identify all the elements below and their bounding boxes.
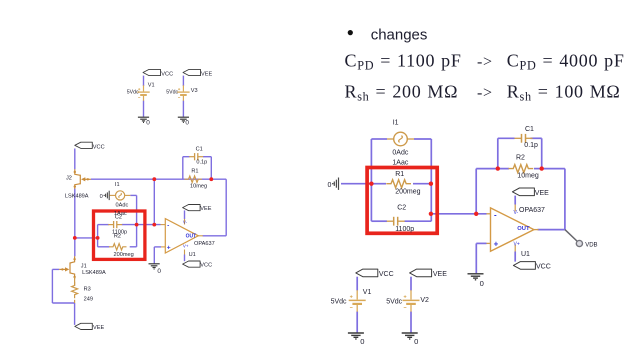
svg-text:Rsh = 200 MΩ: Rsh = 200 MΩ bbox=[345, 82, 459, 104]
svg-text:->: -> bbox=[477, 85, 493, 102]
svg-text:-: - bbox=[494, 211, 497, 220]
svg-text:200meg: 200meg bbox=[114, 252, 134, 258]
svg-text:V3: V3 bbox=[191, 88, 198, 94]
svg-text:J1: J1 bbox=[81, 264, 87, 270]
svg-text:changes: changes bbox=[371, 27, 428, 44]
svg-text:R3: R3 bbox=[84, 287, 91, 293]
svg-text:R1: R1 bbox=[395, 171, 404, 178]
svg-text:0Adc: 0Adc bbox=[116, 203, 129, 209]
svg-text:OUT: OUT bbox=[186, 234, 197, 240]
svg-text:0: 0 bbox=[480, 279, 484, 288]
svg-text:I1: I1 bbox=[115, 182, 120, 188]
svg-text:0Adc: 0Adc bbox=[392, 149, 408, 156]
svg-text:CPD = 1100 pF: CPD = 1100 pF bbox=[345, 50, 462, 72]
svg-text:->: -> bbox=[477, 53, 493, 70]
svg-text:U1: U1 bbox=[189, 252, 196, 258]
svg-text:+: + bbox=[494, 240, 499, 249]
svg-text:5Vdc: 5Vdc bbox=[127, 90, 139, 96]
svg-text:VCC: VCC bbox=[161, 71, 173, 77]
svg-text:VCC: VCC bbox=[93, 144, 105, 150]
svg-text:C2: C2 bbox=[397, 205, 406, 212]
svg-text:VCC: VCC bbox=[379, 271, 394, 278]
svg-text:V1: V1 bbox=[148, 83, 155, 89]
svg-text:CPD = 4000 pF: CPD = 4000 pF bbox=[507, 50, 625, 72]
svg-text:V2: V2 bbox=[420, 297, 429, 304]
svg-text:R1: R1 bbox=[191, 168, 198, 174]
svg-text:VDB: VDB bbox=[585, 242, 597, 248]
svg-text:0: 0 bbox=[360, 337, 364, 346]
svg-text:VCC: VCC bbox=[536, 263, 551, 270]
svg-text:5Vdc: 5Vdc bbox=[331, 299, 347, 306]
svg-text:U1: U1 bbox=[521, 251, 530, 258]
svg-text:I1: I1 bbox=[393, 120, 399, 127]
svg-text:1Aac: 1Aac bbox=[392, 159, 408, 166]
svg-text:LSK489A: LSK489A bbox=[65, 194, 89, 200]
svg-text:VEE: VEE bbox=[201, 71, 212, 77]
svg-text:V-: V- bbox=[514, 210, 519, 216]
svg-text:5Vdc: 5Vdc bbox=[166, 90, 178, 96]
svg-text:0: 0 bbox=[328, 182, 332, 189]
svg-text:OUT: OUT bbox=[517, 226, 530, 232]
svg-text:VEE: VEE bbox=[535, 190, 549, 197]
svg-text:-: - bbox=[167, 222, 169, 229]
svg-text:V-: V- bbox=[183, 220, 188, 225]
svg-text:5Vdc: 5Vdc bbox=[386, 299, 402, 306]
svg-text:V+: V+ bbox=[514, 241, 520, 247]
svg-text:Rsh = 100 MΩ: Rsh = 100 MΩ bbox=[507, 82, 621, 104]
svg-text:0: 0 bbox=[146, 119, 150, 126]
svg-text:0: 0 bbox=[414, 337, 418, 346]
svg-text:J2: J2 bbox=[66, 176, 72, 182]
svg-text:10meg: 10meg bbox=[190, 183, 207, 189]
svg-text:VEE: VEE bbox=[433, 271, 447, 278]
svg-text:10meg: 10meg bbox=[517, 173, 539, 180]
svg-text:C1: C1 bbox=[196, 146, 203, 152]
svg-text:0: 0 bbox=[185, 119, 189, 126]
svg-text:1100p: 1100p bbox=[395, 226, 414, 233]
svg-text:0.1p: 0.1p bbox=[196, 159, 207, 165]
svg-text:C2: C2 bbox=[115, 214, 122, 220]
svg-text:VEE: VEE bbox=[200, 206, 211, 212]
svg-text:0: 0 bbox=[157, 268, 161, 275]
svg-text:0.1p: 0.1p bbox=[524, 142, 538, 149]
svg-text:+: + bbox=[167, 245, 171, 252]
svg-text:V+: V+ bbox=[183, 244, 189, 249]
svg-text:VCC: VCC bbox=[200, 263, 212, 269]
svg-text:VEE: VEE bbox=[93, 325, 104, 331]
svg-text:R2: R2 bbox=[114, 233, 121, 239]
svg-text:V1: V1 bbox=[363, 289, 372, 296]
svg-text:LSK489A: LSK489A bbox=[82, 270, 106, 276]
svg-text:OPA637: OPA637 bbox=[519, 207, 545, 214]
svg-text:200meg: 200meg bbox=[395, 188, 420, 195]
svg-text:C1: C1 bbox=[525, 126, 534, 133]
svg-text:0: 0 bbox=[100, 194, 103, 200]
svg-text:249: 249 bbox=[84, 296, 93, 302]
svg-text:OPA637: OPA637 bbox=[194, 241, 215, 247]
svg-text:R2: R2 bbox=[516, 154, 525, 161]
